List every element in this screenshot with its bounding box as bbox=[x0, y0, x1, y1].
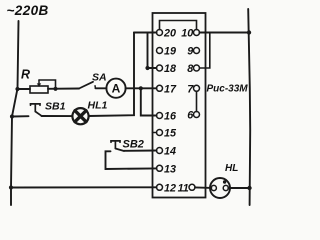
wire pin 11 to lamp HL bbox=[195, 186, 211, 189]
pin 20 bbox=[157, 30, 163, 36]
resistor R body bbox=[30, 86, 48, 93]
wire R to SA bbox=[48, 88, 79, 90]
wire SA to ammeter bbox=[96, 87, 107, 89]
svg-text:SB1: SB1 bbox=[45, 101, 66, 113]
svg-text:R: R bbox=[21, 68, 30, 82]
svg-text:Рис-33М: Рис-33М bbox=[207, 84, 249, 95]
svg-text:13: 13 bbox=[164, 163, 176, 175]
wire ammeter to pin 17 bbox=[126, 87, 157, 89]
pin 13 bbox=[157, 165, 163, 171]
wire rheostat loop bbox=[39, 80, 56, 89]
svg-text:9: 9 bbox=[187, 46, 193, 58]
svg-text:10: 10 bbox=[181, 28, 193, 40]
pushbutton SB2 bbox=[111, 141, 120, 142]
pin 10 bbox=[194, 30, 200, 36]
node junction right bus / lamp wire bbox=[247, 186, 251, 190]
pushbutton SB1 bbox=[31, 104, 41, 105]
wire bus to resistor R bbox=[18, 88, 31, 90]
pin 19 bbox=[157, 48, 163, 54]
switch SA blade bbox=[79, 82, 93, 89]
wire lamp to bus bbox=[228, 187, 249, 189]
svg-text:6: 6 bbox=[187, 110, 194, 122]
lamp HL1 bbox=[72, 108, 88, 124]
node junction left bus / SB1 row bbox=[10, 114, 14, 118]
pin 14 bbox=[157, 148, 163, 154]
wire HL1 to pin 20 net bbox=[89, 33, 134, 117]
svg-text:11: 11 bbox=[178, 182, 189, 194]
wire pin 10 to bus bbox=[200, 32, 250, 34]
pin 7 bbox=[194, 85, 200, 91]
svg-text:~220В: ~220В bbox=[7, 3, 49, 18]
resistor R wiper arrow bbox=[38, 80, 40, 85]
wire right supply bus (neutral) bbox=[248, 9, 250, 205]
wire SB2 to pin 14 bbox=[124, 150, 157, 152]
pin 8 bbox=[194, 65, 200, 71]
svg-text:19: 19 bbox=[164, 46, 176, 58]
pin 6 bbox=[194, 112, 200, 118]
pin 12 bbox=[157, 184, 163, 190]
svg-text:17: 17 bbox=[164, 83, 177, 95]
block Ris-33M outline bbox=[153, 13, 206, 198]
node junction A wire / pin16 link bbox=[139, 86, 143, 90]
ammeter A bbox=[106, 79, 125, 98]
node junction loop / main wire bbox=[53, 87, 57, 91]
svg-text:14: 14 bbox=[164, 146, 176, 158]
pin 18 bbox=[157, 65, 163, 71]
svg-text:A: A bbox=[112, 82, 121, 96]
svg-text:SB2: SB2 bbox=[123, 139, 144, 151]
wire SB1 row from bus bbox=[12, 115, 29, 117]
svg-text:HL1: HL1 bbox=[88, 100, 108, 112]
node junction left bus / pin12 row bbox=[9, 185, 13, 189]
wire SB1 to HL1 bbox=[42, 115, 73, 117]
pin 9 bbox=[194, 48, 200, 54]
svg-text:7: 7 bbox=[187, 83, 194, 95]
wire pin 20 bbox=[134, 32, 157, 34]
pin 17 bbox=[157, 85, 163, 91]
pin 15 bbox=[153, 132, 157, 134]
lamp HL bbox=[210, 178, 230, 198]
svg-text:16: 16 bbox=[164, 111, 177, 123]
svg-text:8: 8 bbox=[187, 63, 193, 75]
svg-text:20: 20 bbox=[163, 28, 176, 40]
pin 11 bbox=[189, 184, 195, 190]
wire link pin20 net to pin 18 bbox=[148, 33, 157, 69]
svg-text:12: 12 bbox=[164, 182, 176, 194]
node junction right bus / pin10 wire bbox=[247, 30, 251, 34]
svg-text:HL: HL bbox=[225, 163, 238, 174]
wire left supply bus (phase) bbox=[11, 21, 19, 205]
jumper pin 8 to pin10 wire bbox=[200, 33, 210, 69]
wire bus to pin 12 bbox=[11, 186, 157, 188]
pin 16 bbox=[157, 113, 163, 119]
jumper pins 20-10 bbox=[160, 21, 197, 30]
node junction left bus / R row bbox=[15, 87, 19, 91]
jumper pins 7-6 bbox=[196, 91, 198, 111]
svg-text:SA: SA bbox=[92, 72, 107, 84]
svg-text:18: 18 bbox=[164, 63, 176, 75]
svg-text:15: 15 bbox=[164, 128, 177, 140]
wire SB2 left leg bbox=[106, 151, 157, 169]
node junction pin18 bbox=[145, 66, 149, 70]
wire link pin17 net to pin 16 bbox=[141, 88, 157, 115]
